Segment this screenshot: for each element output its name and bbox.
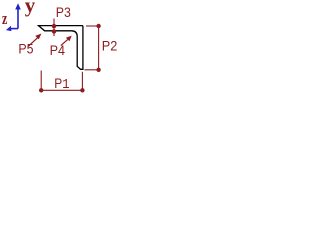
svg-text:P5: P5: [18, 41, 33, 57]
svg-text:P1: P1: [54, 76, 70, 92]
dimension P5 arrow: [28, 34, 41, 47]
axis y arrow: [15, 3, 21, 28]
L-profile outline: [39, 26, 83, 70]
dimension P2: [85, 24, 101, 72]
background: [0, 0, 130, 100]
svg-text:P2: P2: [102, 38, 118, 54]
svg-text:P4: P4: [50, 43, 65, 59]
axis z arrow: [6, 26, 18, 31]
dimension P4 arrow: [61, 36, 72, 46]
dimension P1: [39, 71, 85, 93]
svg-text:y: y: [25, 0, 36, 17]
dimension P3 line: [52, 19, 56, 37]
svg-text:z: z: [2, 10, 8, 28]
svg-text:P3: P3: [56, 5, 71, 21]
